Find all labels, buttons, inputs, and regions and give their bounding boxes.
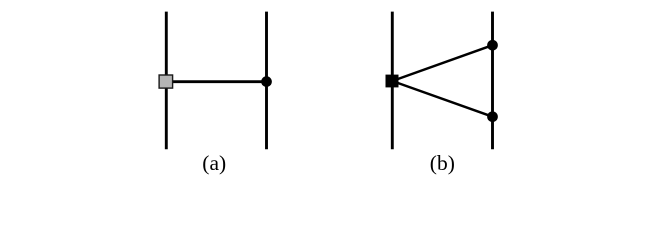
wire: circuit (a) left vertical line (165, 12, 168, 150)
wire: circuit (a) horizontal connecting line (166, 80, 266, 83)
wire: circuit (b) upper diagonal line (392, 45, 492, 81)
gate: gray square node on (a) left wire (159, 75, 173, 88)
gate: black square node on (b) left wire (386, 75, 399, 88)
wire: circuit (a) right vertical line (265, 12, 268, 150)
wire: circuit (b) lower diagonal line (392, 81, 492, 117)
node: upper black dot on (b) right wire (487, 40, 498, 51)
wire: circuit (b) right vertical line (491, 12, 494, 150)
node: black dot on (a) right wire (261, 76, 272, 87)
label: caption (b) (430, 151, 455, 176)
node: lower black dot on (b) right wire (487, 111, 498, 122)
label: caption (a) (202, 151, 226, 176)
wire: circuit (b) left vertical line (391, 12, 394, 150)
